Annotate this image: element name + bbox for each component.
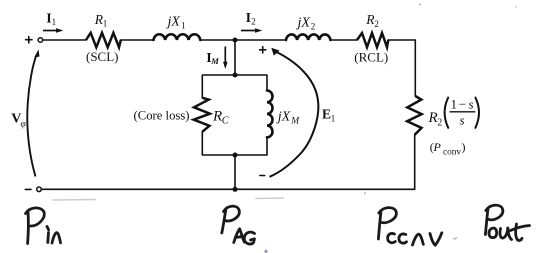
svg-text:): ) bbox=[462, 140, 466, 154]
svg-text:P: P bbox=[433, 140, 442, 154]
svg-text:s: s bbox=[469, 97, 474, 112]
svg-text:−: − bbox=[459, 97, 466, 112]
svg-text:2: 2 bbox=[311, 21, 316, 31]
svg-text:φ: φ bbox=[21, 120, 26, 130]
svg-text:conv: conv bbox=[443, 147, 461, 157]
svg-text:M: M bbox=[210, 56, 219, 66]
svg-text:1: 1 bbox=[331, 113, 336, 123]
svg-text:E: E bbox=[322, 107, 331, 122]
svg-text:1: 1 bbox=[103, 18, 108, 28]
svg-text:R: R bbox=[212, 109, 222, 125]
svg-text:1: 1 bbox=[451, 97, 458, 112]
svg-text:M: M bbox=[290, 117, 300, 127]
svg-text:(RCL): (RCL) bbox=[354, 50, 388, 65]
svg-text:1: 1 bbox=[181, 20, 186, 30]
svg-text:2: 2 bbox=[374, 19, 379, 29]
svg-text:s: s bbox=[460, 113, 465, 128]
svg-text:(SCL): (SCL) bbox=[86, 49, 119, 64]
svg-text:jX: jX bbox=[276, 109, 291, 124]
svg-text:1: 1 bbox=[52, 17, 57, 27]
svg-text:jX: jX bbox=[166, 15, 181, 30]
svg-text:jX: jX bbox=[296, 16, 311, 31]
svg-text:C: C bbox=[222, 115, 230, 126]
svg-text:2: 2 bbox=[437, 117, 442, 128]
svg-text:2: 2 bbox=[251, 17, 256, 27]
svg-text:R: R bbox=[428, 110, 438, 126]
svg-text:(Core loss): (Core loss) bbox=[134, 108, 190, 122]
